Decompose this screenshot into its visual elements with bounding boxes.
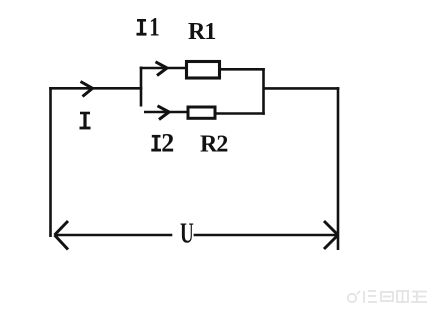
current arrow I1 [156, 62, 168, 76]
wire top-left main [49, 87, 142, 90]
wire top branch left [140, 67, 188, 70]
svg-text:2: 2 [161, 128, 174, 157]
wire top-right main [264, 87, 340, 90]
voltage line U left segment [55, 234, 173, 237]
wire bottom branch right [215, 112, 265, 115]
resistor R1 [187, 62, 220, 79]
label I [80, 112, 91, 128]
wire parallel right vertical [262, 68, 265, 115]
svg-text:U: U [180, 219, 194, 249]
arrowhead U right [324, 221, 338, 249]
resistor R2 [188, 107, 215, 118]
wire top branch right [220, 68, 265, 71]
svg-text:R2: R2 [200, 131, 227, 157]
watermark [348, 291, 427, 303]
current arrow I2 [158, 106, 170, 120]
wire left vertical [49, 87, 52, 237]
wire right vertical [337, 87, 340, 250]
svg-text:R1: R1 [188, 19, 215, 45]
svg-text:1: 1 [149, 13, 159, 42]
current arrow I [81, 82, 93, 97]
node junction stub [140, 67, 143, 107]
label I2 [151, 135, 161, 150]
label I1 [137, 20, 147, 35]
arrowhead U left [55, 221, 69, 250]
wire bottom branch left [144, 111, 189, 114]
voltage line U right segment [194, 234, 338, 237]
